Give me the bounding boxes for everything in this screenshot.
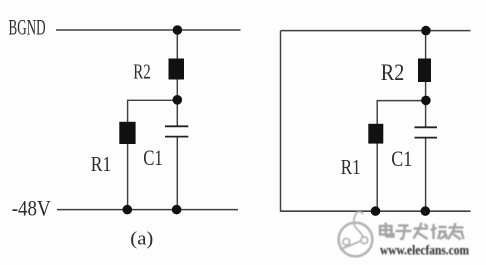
resistor R1 (right) [368,124,383,144]
wire R1 bottom lead (left) [127,144,129,210]
wire bottom rail (right circuit) [281,210,471,212]
junction dot R1/bottom rail (right) [371,206,381,216]
junction dot C1/-48V rail (left) [172,205,182,215]
svg-text:(a): (a) [130,229,153,250]
watermark text 电子发烧友 [380,223,464,240]
junction dot top rail/R2 (right) [421,26,431,36]
capacitor C1 (right) [415,127,438,137]
wire -48V rail (left circuit bottom) [57,209,238,211]
junction dot R1/-48V rail (left) [123,205,133,215]
wire R1 bottom lead (right) [376,143,378,211]
wire C1 bottom lead (right) [425,138,427,211]
junction dot BGND/R2 (left) [173,25,183,35]
svg-text:R1: R1 [341,155,361,179]
wire left shorting link (right circuit left box edge) [280,31,282,212]
wire branch node to R1 (left) [128,100,178,123]
wire C1 top lead (right) [425,101,427,127]
svg-text:-48V: -48V [12,196,51,221]
wire R2 bottom lead to node (right) [425,81,427,101]
wire C1 bottom lead (left) [176,137,178,210]
svg-text:BGND: BGND [9,15,46,40]
junction dot node R2/R1/C1 (right) [421,96,431,106]
wire C1 top lead (left) [176,100,178,126]
junction dot C1/bottom rail (right) [421,206,431,216]
junction dot node R2/R1/C1 (left) [173,95,183,105]
watermark logo (elecfans bird circle) [339,212,373,257]
wire R2 bottom lead to node (left) [176,79,178,100]
resistor R1 (left) [119,122,135,144]
svg-text:www.elecfans.com: www.elecfans.com [380,243,470,258]
resistor R2 (right) [418,59,431,83]
svg-text:C1: C1 [143,145,163,170]
svg-text:R1: R1 [91,152,112,176]
wire top rail (right circuit) [281,30,471,32]
wire branch node to R1 (right) [377,101,425,125]
wire R2 top lead (left) [176,30,178,60]
wire R2 top lead (right) [425,31,427,60]
svg-text:C1: C1 [391,146,412,171]
resistor R2 (left) [169,59,185,80]
svg-text:R2: R2 [133,60,151,84]
wire BGND rail (left circuit top) [56,29,241,31]
capacitor C1 (left) [165,126,188,136]
svg-text:R2: R2 [381,60,405,85]
